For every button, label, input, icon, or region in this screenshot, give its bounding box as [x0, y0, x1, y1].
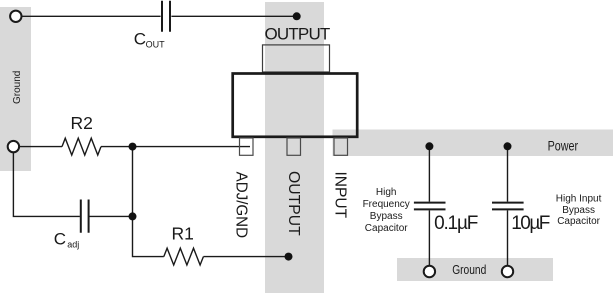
svg-text:Frequency: Frequency — [363, 199, 410, 210]
svg-text:INPUT: INPUT — [331, 171, 348, 218]
svg-text:C: C — [134, 30, 146, 49]
svg-text:OUT: OUT — [146, 40, 166, 50]
svg-text:Power: Power — [548, 138, 579, 153]
svg-text:OUTPUT: OUTPUT — [285, 171, 302, 236]
svg-text:OUTPUT: OUTPUT — [265, 25, 331, 44]
svg-text:R2: R2 — [71, 113, 93, 133]
svg-text:Ground: Ground — [452, 263, 486, 277]
svg-text:Capacitor: Capacitor — [557, 216, 600, 227]
svg-text:Ground: Ground — [12, 71, 23, 104]
svg-text:Capacitor: Capacitor — [365, 223, 408, 234]
svg-text:High Input: High Input — [556, 194, 602, 205]
svg-text:R1: R1 — [172, 224, 194, 244]
svg-text:Bypass: Bypass — [370, 211, 403, 222]
svg-text:High: High — [376, 187, 397, 198]
svg-text:C: C — [54, 229, 66, 248]
svg-text:10µF: 10µF — [511, 213, 550, 234]
svg-text:adj: adj — [67, 240, 79, 250]
svg-text:0.1µF: 0.1µF — [434, 213, 478, 234]
svg-text:ADJ/GND: ADJ/GND — [233, 172, 250, 238]
svg-text:Bypass: Bypass — [562, 205, 595, 216]
